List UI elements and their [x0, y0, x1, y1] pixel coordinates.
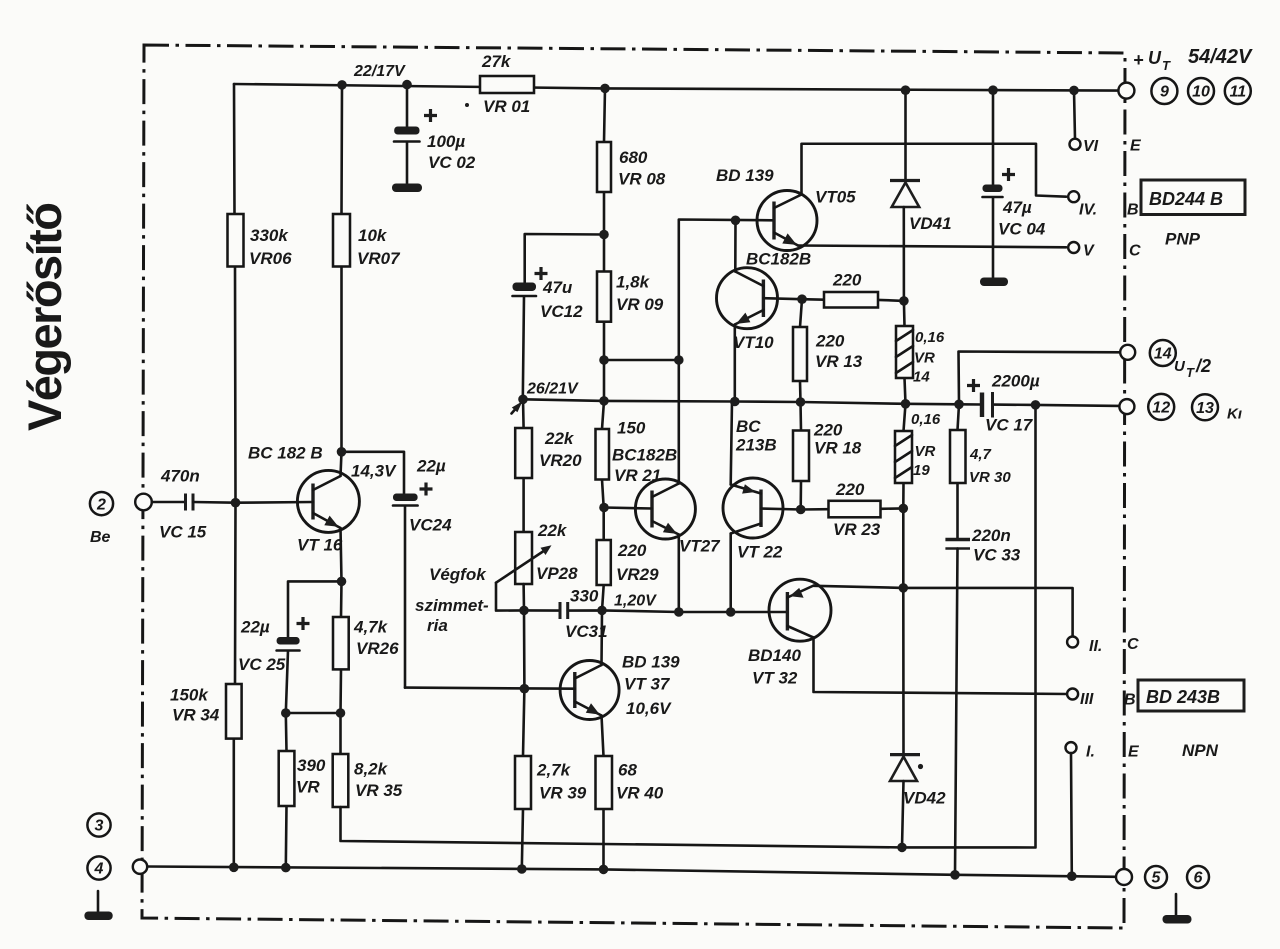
- junction output rail at VC12/VR20 (26/21V): [518, 395, 528, 405]
- capacitor VC12 47u: [513, 234, 605, 399]
- svg-text:470n: 470n: [160, 467, 200, 486]
- svg-text:2: 2: [96, 496, 106, 513]
- resistor VR13 220: [793, 299, 863, 402]
- svg-text:VC12: VC12: [540, 302, 583, 321]
- svg-text:BC182B: BC182B: [746, 250, 811, 269]
- svg-text:T: T: [1162, 58, 1171, 73]
- svg-text:VP28: VP28: [536, 564, 578, 583]
- junction VR08-VR09 / VC12: [599, 230, 609, 240]
- svg-text:IV.: IV.: [1079, 202, 1097, 219]
- junction ground rail at VC33: [950, 870, 960, 880]
- terminal IV: [1068, 191, 1138, 218]
- svg-text:4,7k: 4,7k: [353, 618, 389, 637]
- box BD244B: [1141, 180, 1245, 215]
- svg-text:/2: /2: [1195, 356, 1211, 376]
- svg-text:220: 220: [835, 480, 865, 499]
- svg-text:BD244 B: BD244 B: [1149, 189, 1223, 209]
- svg-text:12: 12: [1152, 400, 1170, 417]
- svg-text:III: III: [1080, 691, 1094, 708]
- junction ground rail at terminal I: [1067, 871, 1077, 881]
- svg-text:VT10: VT10: [733, 333, 774, 352]
- capacitor VC33 220n: [945, 526, 1020, 875]
- capacitor VC15 470n: [159, 467, 236, 542]
- svg-text:BD 243B: BD 243B: [1146, 687, 1220, 707]
- resistor VR09 1,8k: [597, 272, 664, 322]
- svg-text:14: 14: [913, 369, 930, 386]
- svg-text:22/17V: 22/17V: [353, 63, 406, 80]
- junction ground rail at 390R: [281, 863, 291, 873]
- terminal II: [1067, 636, 1139, 655]
- resistor 220 (VT10 base to VD41 node): [802, 271, 904, 308]
- svg-text:I.: I.: [1086, 744, 1095, 761]
- capacitor VC24 22µ: [342, 452, 453, 688]
- junction VR23 / VD41 column: [899, 504, 909, 514]
- svg-text:NPN: NPN: [1182, 741, 1219, 760]
- box BD243B: [1138, 680, 1244, 711]
- svg-text:C: C: [1129, 243, 1141, 260]
- ground bottom left: [84, 891, 112, 920]
- svg-text:54/42V: 54/42V: [1188, 46, 1253, 68]
- junction bias node VT22 collector: [726, 607, 736, 617]
- svg-text:19: 19: [913, 462, 930, 479]
- wire top supply rail: [234, 84, 1118, 91]
- wire bottom ground rail: [148, 867, 1117, 877]
- junction output rail at VC17/VR30: [954, 400, 964, 410]
- svg-text:VD41: VD41: [909, 214, 952, 233]
- wire VT16 emitter node to VC25: [288, 581, 342, 637]
- svg-text:VR 30: VR 30: [969, 469, 1011, 486]
- svg-text:26/21V: 26/21V: [526, 381, 579, 398]
- wire I terminal to ground rail: [1070, 753, 1073, 876]
- svg-text:B: B: [1127, 202, 1139, 219]
- transistor VT32 BD140: [748, 579, 831, 687]
- svg-text:BD 139: BD 139: [716, 166, 774, 185]
- svg-text:680: 680: [619, 148, 648, 167]
- svg-text:BC182B: BC182B: [612, 446, 677, 465]
- junction VR26 / VR35 node: [336, 708, 346, 718]
- terminal UT/2 with circle 14: [1120, 340, 1211, 380]
- svg-text:47µ: 47µ: [1002, 198, 1032, 217]
- wire VT10 base to node: [763, 298, 802, 299]
- svg-text:22µ: 22µ: [240, 618, 270, 637]
- capacitor VC02 100µ: [394, 85, 476, 184]
- svg-text:U: U: [1148, 48, 1162, 68]
- svg-text:2,7k: 2,7k: [536, 761, 572, 780]
- junction VD42 bottom / bootstrap wire: [897, 843, 907, 853]
- svg-text:VC 15: VC 15: [159, 523, 207, 542]
- svg-text:14,3V: 14,3V: [351, 462, 397, 481]
- wire VT37 collector to y610 node: [600, 610, 603, 665]
- junction bias node VR29/VT37 collector: [597, 606, 607, 616]
- svg-text:Végfok: Végfok: [429, 565, 487, 584]
- svg-text:E: E: [1128, 744, 1140, 761]
- svg-text:150k: 150k: [170, 686, 209, 705]
- svg-text:VR 09: VR 09: [616, 295, 664, 314]
- svg-text:BD 139: BD 139: [622, 653, 680, 672]
- svg-text:13: 13: [1196, 400, 1214, 417]
- junction II wire / VD41 column: [899, 583, 909, 593]
- junction VT16 collector / VR07 / VC24: [337, 447, 347, 457]
- svg-text:3: 3: [95, 818, 104, 835]
- svg-text:11: 11: [1229, 84, 1246, 101]
- terminal circle 3: [87, 813, 110, 836]
- svg-text:4,7: 4,7: [969, 446, 992, 463]
- resistor VR14 0,16 hatched: [896, 301, 945, 404]
- dash-dot border frame: [142, 45, 1125, 928]
- wire VT16 emitter to node: [341, 528, 342, 581]
- svg-text:330: 330: [570, 587, 599, 606]
- terminal circle 4 with input terminal: [87, 856, 147, 879]
- wire VT10 collector up to VT05 base node: [734, 220, 737, 271]
- wire VT05 emitter to V terminal: [798, 246, 1066, 248]
- trimmer VP28 22k: [496, 521, 578, 611]
- svg-text:VR 39: VR 39: [539, 784, 587, 803]
- svg-text:BC 182 B: BC 182 B: [248, 444, 323, 463]
- svg-text:4: 4: [94, 861, 104, 878]
- junction output rail at VR21: [599, 396, 609, 406]
- svg-text:27k: 27k: [481, 52, 512, 71]
- svg-text:VR 35: VR 35: [355, 781, 403, 800]
- svg-text:VR 01: VR 01: [483, 97, 530, 116]
- junction VT10 base / VR13: [797, 294, 807, 304]
- transistor VT05 BD139: [716, 166, 856, 251]
- svg-text:68: 68: [618, 761, 637, 780]
- svg-text:VT 16: VT 16: [297, 536, 343, 555]
- resistor VR30 4,7: [950, 404, 1011, 539]
- junction VT05 base / VT10 collector: [731, 216, 741, 226]
- wire VT10 emitter down to output rail: [733, 325, 736, 402]
- resistor VR20 22k: [515, 399, 582, 532]
- svg-text:VT05: VT05: [815, 188, 856, 207]
- svg-text:B: B: [1124, 692, 1136, 709]
- wire left bias column (rail to VR06 to input node to VR34 to ground rail): [234, 84, 236, 867]
- svg-text:1,8k: 1,8k: [616, 273, 651, 292]
- svg-text:PNP: PNP: [1165, 230, 1201, 249]
- wire VR39 column: [522, 610, 525, 869]
- svg-text:10k: 10k: [358, 226, 388, 245]
- resistor VR06 330k: [228, 214, 293, 268]
- wire VT37 emitter to VR40: [602, 716, 604, 870]
- terminal VI: [1070, 138, 1143, 156]
- svg-text:47u: 47u: [542, 278, 573, 297]
- junction VT16 emitter / VC25 / VR26: [337, 577, 347, 587]
- junction VT37 base wire / VR39 column: [520, 684, 530, 694]
- svg-text:1,20V: 1,20V: [614, 593, 657, 610]
- svg-text:5: 5: [1152, 870, 1162, 887]
- junction VT22 base / VR18 / VR23: [796, 505, 806, 515]
- svg-text:220: 220: [832, 271, 862, 290]
- wire VT05 collector to IV terminal: [802, 144, 1067, 197]
- wire VT27 emitter down: [677, 535, 680, 613]
- svg-text:150: 150: [617, 419, 646, 438]
- wire VT05 base column from VR09 node: [604, 220, 773, 484]
- junction ground rail at VR34: [229, 863, 239, 873]
- junction top rail to VI: [1069, 86, 1079, 96]
- svg-text:BC: BC: [736, 417, 761, 436]
- transistor VT37 BD139: [560, 653, 680, 720]
- svg-text:VC 02: VC 02: [428, 153, 476, 172]
- transistor VT10 BC182B: [717, 250, 812, 353]
- resistor VR40 68: [596, 756, 664, 809]
- capacitor VC25 22µ: [238, 617, 310, 713]
- resistor VR35 8,2k: [333, 713, 403, 807]
- wire VI terminal drop: [1074, 90, 1075, 138]
- wire VD41 column II branch: [902, 508, 905, 754]
- capacitor VC04 47µ: [983, 90, 1046, 277]
- svg-text:220: 220: [617, 541, 647, 560]
- diode VD41: [890, 90, 952, 301]
- wire VT37 base row: [405, 688, 575, 689]
- svg-text:22k: 22k: [537, 521, 568, 540]
- svg-text:VT 32: VT 32: [752, 669, 798, 688]
- svg-text:VR06: VR06: [249, 249, 292, 268]
- svg-text:220: 220: [815, 332, 845, 351]
- svg-text:VR29: VR29: [616, 565, 659, 584]
- resistor VR08 680: [597, 142, 666, 192]
- svg-text:VC 04: VC 04: [998, 220, 1046, 239]
- svg-text:2200µ: 2200µ: [991, 372, 1040, 391]
- junction output rail at VT10/VT22 emitters: [730, 397, 740, 407]
- terminal 5 and circles 5 6: [1116, 866, 1209, 888]
- svg-text:VC 25: VC 25: [238, 655, 286, 674]
- wire UT/2 terminal branch: [959, 352, 1121, 405]
- transistor VT16 BC182B input: [248, 444, 359, 555]
- junction top rail to VC02: [402, 80, 412, 90]
- svg-text:VR07: VR07: [357, 249, 401, 268]
- svg-text:V: V: [1083, 243, 1095, 260]
- junction input node VR06/VR34/base: [231, 498, 241, 508]
- transistor VT27 BC182B: [635, 479, 721, 556]
- svg-text:10: 10: [1192, 84, 1210, 101]
- junction output rail to VD42 branch: [1031, 400, 1041, 410]
- ground below VC02: [392, 184, 422, 193]
- svg-text:VC 33: VC 33: [973, 546, 1021, 565]
- svg-text:220: 220: [813, 421, 843, 440]
- svg-text:VR 34: VR 34: [172, 706, 220, 725]
- svg-text:0,16: 0,16: [911, 411, 941, 428]
- junction top rail to VD41: [901, 85, 911, 95]
- resistor VR21 150 (BC182B label of VT27): [596, 419, 678, 486]
- wire mid node row y=610: [524, 610, 787, 612]
- svg-text:22µ: 22µ: [416, 457, 446, 476]
- svg-text:8,2k: 8,2k: [354, 760, 389, 779]
- wire VR35 bottom bootstrap to VD42 bottom and output column: [341, 405, 1036, 848]
- resistor VR26 4,7k: [333, 581, 399, 713]
- svg-text:330k: 330k: [250, 226, 289, 245]
- wire VT27 base from VR21 node: [604, 508, 652, 509]
- svg-text:100µ: 100µ: [427, 132, 465, 151]
- svg-text:VC24: VC24: [409, 516, 452, 535]
- junction top rail to VC04: [988, 85, 998, 95]
- svg-text:10,6V: 10,6V: [626, 699, 672, 718]
- svg-text:VR 13: VR 13: [815, 352, 863, 371]
- junction VR09 bottom node: [599, 355, 609, 365]
- svg-text:VD42: VD42: [903, 789, 946, 808]
- svg-text:VT 37: VT 37: [624, 675, 671, 694]
- svg-text:T: T: [1186, 365, 1195, 380]
- junction top rail to VR08: [600, 84, 610, 94]
- terminal +UT with circles 9 10 11: [1118, 46, 1253, 104]
- svg-text:VR: VR: [914, 350, 935, 367]
- wire VT32 emitter II row: [814, 586, 1073, 637]
- resistor VR34 150k: [170, 684, 242, 739]
- junction output rail at VR13/VR18: [796, 397, 806, 407]
- resistor VR07 10k: [333, 214, 401, 268]
- resistor VR29 220: [597, 540, 659, 585]
- svg-text:14: 14: [1154, 346, 1172, 363]
- svg-text:VR 40: VR 40: [616, 784, 664, 803]
- svg-text:+: +: [1133, 50, 1144, 70]
- junction output rail at VR14/VR19: [901, 399, 911, 409]
- svg-text:0,16: 0,16: [915, 329, 945, 346]
- svg-text:VR: VR: [296, 778, 320, 797]
- label Végfok szimmetria: [415, 565, 489, 635]
- svg-text:Be: Be: [90, 529, 111, 546]
- transistor VT22 BC213B: [723, 417, 783, 562]
- resistor VR23 220: [801, 480, 904, 539]
- resistor VR39 2,7k: [515, 756, 587, 809]
- svg-text:II.: II.: [1089, 638, 1102, 655]
- svg-text:C: C: [1127, 636, 1139, 653]
- capacitor VC17 2200µ: [967, 372, 1040, 435]
- svg-text:VT27: VT27: [679, 537, 721, 556]
- svg-text:VR 08: VR 08: [618, 170, 666, 189]
- svg-text:BD140: BD140: [748, 646, 801, 665]
- wire VT16 base from input node: [236, 501, 314, 504]
- wire emitter bias row y=713: [286, 712, 341, 715]
- svg-text:390: 390: [297, 756, 326, 775]
- junction VT27 collector column: [674, 355, 684, 365]
- ground below VC04: [980, 278, 1008, 287]
- junction ground rail at VR39: [517, 864, 527, 874]
- wire VT16 collector to node: [341, 452, 342, 476]
- svg-text:VT 22: VT 22: [737, 543, 783, 562]
- resistor VR 390: [279, 713, 326, 868]
- node label 26/21V with arrow: [512, 381, 580, 414]
- svg-text:VC 17: VC 17: [985, 416, 1034, 435]
- junction 220R / VD41 column: [899, 296, 909, 306]
- svg-text:ria: ria: [427, 616, 448, 635]
- junction ground rail at VR40: [599, 865, 609, 875]
- wire output rail (26/21V to Ki): [523, 399, 1119, 406]
- svg-text:Végerősítő: Végerősítő: [18, 202, 71, 431]
- terminal III: [1067, 689, 1135, 709]
- svg-text:220n: 220n: [971, 526, 1011, 545]
- junction bias node VT27 emitter: [674, 607, 684, 617]
- svg-text:szimmet-: szimmet-: [415, 596, 489, 615]
- svg-text:VR20: VR20: [539, 451, 582, 470]
- svg-text:9: 9: [1160, 84, 1169, 101]
- wire VR07 column: [340, 85, 343, 452]
- capacitor VC31 330: [560, 587, 608, 642]
- wire VT32 collector III row: [814, 638, 1068, 695]
- svg-text:6: 6: [1194, 870, 1203, 887]
- svg-text:VR 18: VR 18: [814, 439, 862, 458]
- wire VR08/VR09 column: [602, 88, 605, 610]
- resistor VR19 0,16 hatched: [895, 404, 941, 509]
- terminal Ki with circles 12 13: [1119, 394, 1242, 423]
- svg-text:VR 23: VR 23: [833, 520, 881, 539]
- wire VT22 collector down: [729, 534, 732, 613]
- junction VC25 / 390R node: [281, 708, 291, 718]
- svg-text:VR: VR: [915, 443, 936, 460]
- svg-text:VI: VI: [1083, 138, 1099, 155]
- junction top rail to VR07: [337, 80, 347, 90]
- svg-text:Kı: Kı: [1227, 406, 1242, 423]
- svg-text:E: E: [1130, 138, 1142, 155]
- wire VT22 base to node: [761, 509, 801, 510]
- junction bias node VP28/VC31/VR39: [519, 606, 529, 616]
- junction VT27 base / VR21/VR29: [599, 503, 609, 513]
- svg-text:U: U: [1174, 358, 1186, 375]
- resistor VR01 27k: [465, 52, 534, 116]
- svg-text:VR26: VR26: [356, 639, 399, 658]
- resistor VR18 220: [793, 402, 862, 510]
- svg-text:213B: 213B: [735, 436, 777, 455]
- ground bottom right: [1163, 894, 1192, 924]
- diode VD42: [890, 755, 946, 848]
- wire VT22 emitter up to output rail: [731, 402, 732, 485]
- terminal V: [1068, 242, 1141, 260]
- svg-text:22k: 22k: [544, 429, 575, 448]
- terminal I: [1066, 742, 1141, 760]
- title Végerősítő: [18, 202, 71, 431]
- terminal Be circle 2: [90, 492, 186, 546]
